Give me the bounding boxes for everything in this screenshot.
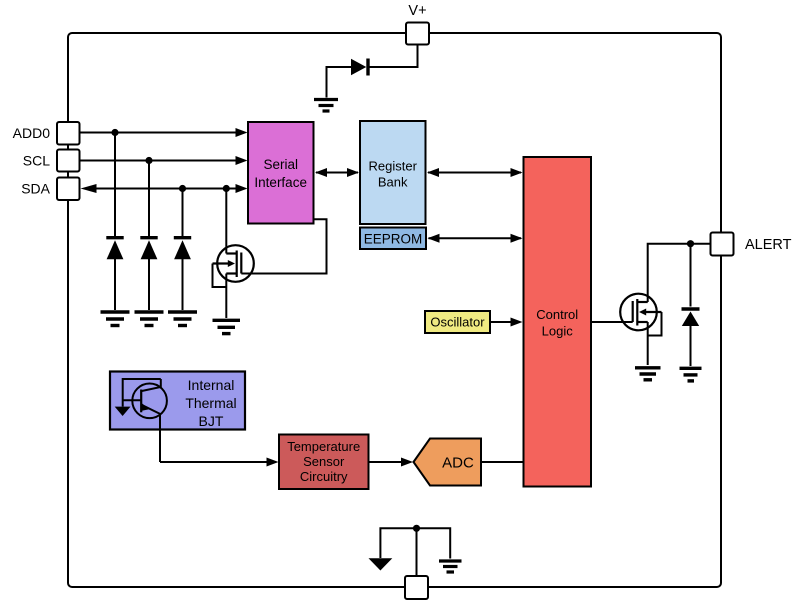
diode D1 cathode bar — [366, 59, 369, 76]
block Register Bank — [360, 121, 426, 224]
pin ALERT — [711, 233, 734, 256]
ground G1 — [314, 100, 338, 112]
block EEPROM — [360, 228, 426, 250]
wire SCL ESD branch — [148, 161, 150, 237]
diode D5 cathode bar — [682, 307, 700, 310]
transistor Q1 bulk arrow — [228, 260, 235, 267]
arrowhead into Control Logic — [511, 168, 523, 177]
wire ALERT junction to diode D5 — [690, 244, 692, 307]
node junction on SCL line — [145, 157, 152, 164]
ground G8 — [439, 561, 462, 572]
svg-text:V+: V+ — [408, 3, 426, 19]
wire GND left arm — [380, 528, 416, 558]
svg-text:ALERT: ALERT — [745, 237, 792, 253]
wire diode D1 to ground G1 — [327, 67, 352, 98]
wire SDA ESD branch — [182, 189, 184, 237]
block ADC — [414, 439, 482, 486]
wire Temperature Sensor to ADC — [369, 461, 404, 463]
power-down arrow — [369, 558, 393, 570]
arrowhead into Register Bank — [427, 168, 439, 177]
wire D2 to ground — [114, 259, 116, 310]
arrowhead into ADC — [401, 458, 413, 467]
wire EEPROM to Control Logic — [429, 237, 522, 239]
transistor Q3 collector — [141, 379, 161, 391]
transistor Q3 base wire — [123, 399, 142, 401]
ground G2 — [101, 312, 130, 326]
transistor Q3 thermal BJT circle — [132, 384, 167, 419]
transistor Q1 body circle — [217, 245, 254, 282]
svg-text:BJT: BJT — [199, 413, 224, 429]
svg-text:SDA: SDA — [21, 181, 50, 197]
svg-text:Control: Control — [536, 307, 578, 322]
node junction on SDA line — [179, 185, 186, 192]
wire GND right arm — [417, 528, 451, 558]
ground G7 — [680, 368, 702, 381]
wire Q1 source to ground — [225, 274, 227, 319]
block Temperature Sensor Circuitry — [279, 435, 369, 490]
svg-text:EEPROM: EEPROM — [364, 231, 423, 246]
arrowhead into Control Logic from Oscillator — [511, 318, 523, 327]
wire Q1 gate loop from Serial Interface — [241, 219, 326, 273]
pin V+ — [406, 23, 429, 45]
wire ADC to Control Logic — [481, 461, 524, 463]
arrowhead into EEPROM — [428, 234, 440, 243]
diode D3 — [141, 240, 158, 259]
arrowhead into SDA pin — [81, 184, 97, 193]
block Control Logic — [524, 157, 592, 487]
transistor Q3 emitter — [141, 405, 160, 462]
svg-text:Oscillator: Oscillator — [430, 315, 485, 330]
transistor Q2 bulk loop — [648, 312, 662, 336]
wire ADD0 to Serial Interface — [79, 132, 237, 134]
wire Serial Interface to Register Bank — [316, 172, 358, 174]
wire Oscillator to Control Logic — [490, 321, 520, 323]
pin ADD0 — [57, 122, 80, 145]
wire Q1 drain from SDA line — [225, 189, 227, 254]
wire D4 to ground — [182, 259, 184, 310]
diode D2 — [107, 240, 124, 259]
wire ADD0 ESD branch — [114, 133, 116, 237]
pin SDA — [57, 178, 80, 201]
transistor Q2 body circle — [620, 294, 657, 331]
node junction on ADD0 line — [111, 129, 118, 136]
svg-text:Interface: Interface — [254, 175, 307, 190]
diode D1 — [351, 59, 366, 75]
arrowhead into Control Logic — [511, 234, 523, 243]
arrowhead into Serial Interface (SCL) — [236, 156, 248, 165]
pin GND — [405, 576, 428, 599]
wire Control Logic to Q2 gate — [591, 321, 633, 323]
svg-text:SCL: SCL — [23, 153, 50, 169]
transistor Q2 internals — [633, 299, 662, 326]
svg-text:Internal: Internal — [188, 377, 235, 393]
arrowhead into Temperature Sensor — [267, 458, 279, 467]
wire D5 to ground — [690, 326, 692, 367]
node junction GND — [413, 525, 420, 532]
block Oscillator — [425, 311, 490, 333]
arrowhead into Serial Interface — [315, 168, 327, 177]
current arrow to ground — [115, 407, 131, 416]
svg-text:Thermal: Thermal — [185, 395, 236, 411]
wire SDA bidirectional — [93, 188, 237, 190]
diode D4 cathode bar — [174, 236, 191, 239]
node junction ALERT — [687, 240, 694, 247]
svg-text:Bank: Bank — [378, 175, 408, 190]
transistor Q3 emitter arrow — [142, 403, 150, 411]
transistor Q1 internals — [213, 251, 242, 278]
svg-text:Serial: Serial — [263, 157, 298, 172]
wire Q2 drain to ALERT — [648, 244, 710, 302]
wire SCL to Serial Interface — [79, 160, 237, 162]
transistor Q2 bulk arrow — [639, 309, 646, 316]
wire D3 to ground — [148, 259, 150, 310]
ground G6 — [635, 368, 661, 380]
svg-text:ADC: ADC — [442, 454, 474, 471]
pin SCL — [57, 150, 80, 172]
diode D2 cathode bar — [106, 236, 123, 239]
transistor Q1 bulk loop — [213, 264, 227, 288]
wire Q2 source to ground — [647, 322, 649, 365]
block Internal Thermal BJT — [110, 372, 245, 430]
ground G3 — [135, 312, 164, 326]
wire collector-base loop — [123, 379, 161, 407]
wire GND pin riser — [416, 528, 418, 577]
ground G4 — [168, 312, 197, 326]
wire BJT to Temperature Sensor — [160, 461, 268, 463]
arrowhead into Serial Interface (ADD0) — [236, 128, 248, 137]
svg-text:Register: Register — [368, 159, 417, 174]
ground G5 — [213, 320, 241, 333]
svg-text:Logic: Logic — [542, 324, 574, 339]
svg-text:Sensor: Sensor — [303, 454, 345, 469]
chip outline — [68, 33, 721, 587]
svg-text:ADD0: ADD0 — [13, 125, 51, 141]
diode D4 — [174, 240, 191, 259]
diode D3 cathode bar — [140, 236, 157, 239]
svg-text:Temperature: Temperature — [287, 439, 360, 454]
diode D5 — [682, 312, 699, 327]
block Serial Interface — [248, 122, 314, 224]
svg-text:Circuitry: Circuitry — [300, 469, 348, 484]
wire Register Bank to Control Logic — [428, 172, 521, 174]
transistor Q3 base bar — [140, 390, 142, 413]
arrowhead into Register Bank — [347, 168, 359, 177]
wire V+ pin to diode D1 — [369, 44, 418, 67]
node junction SDA to Q1 drain — [223, 185, 230, 192]
arrowhead into Serial Interface (SDA) — [236, 184, 248, 193]
